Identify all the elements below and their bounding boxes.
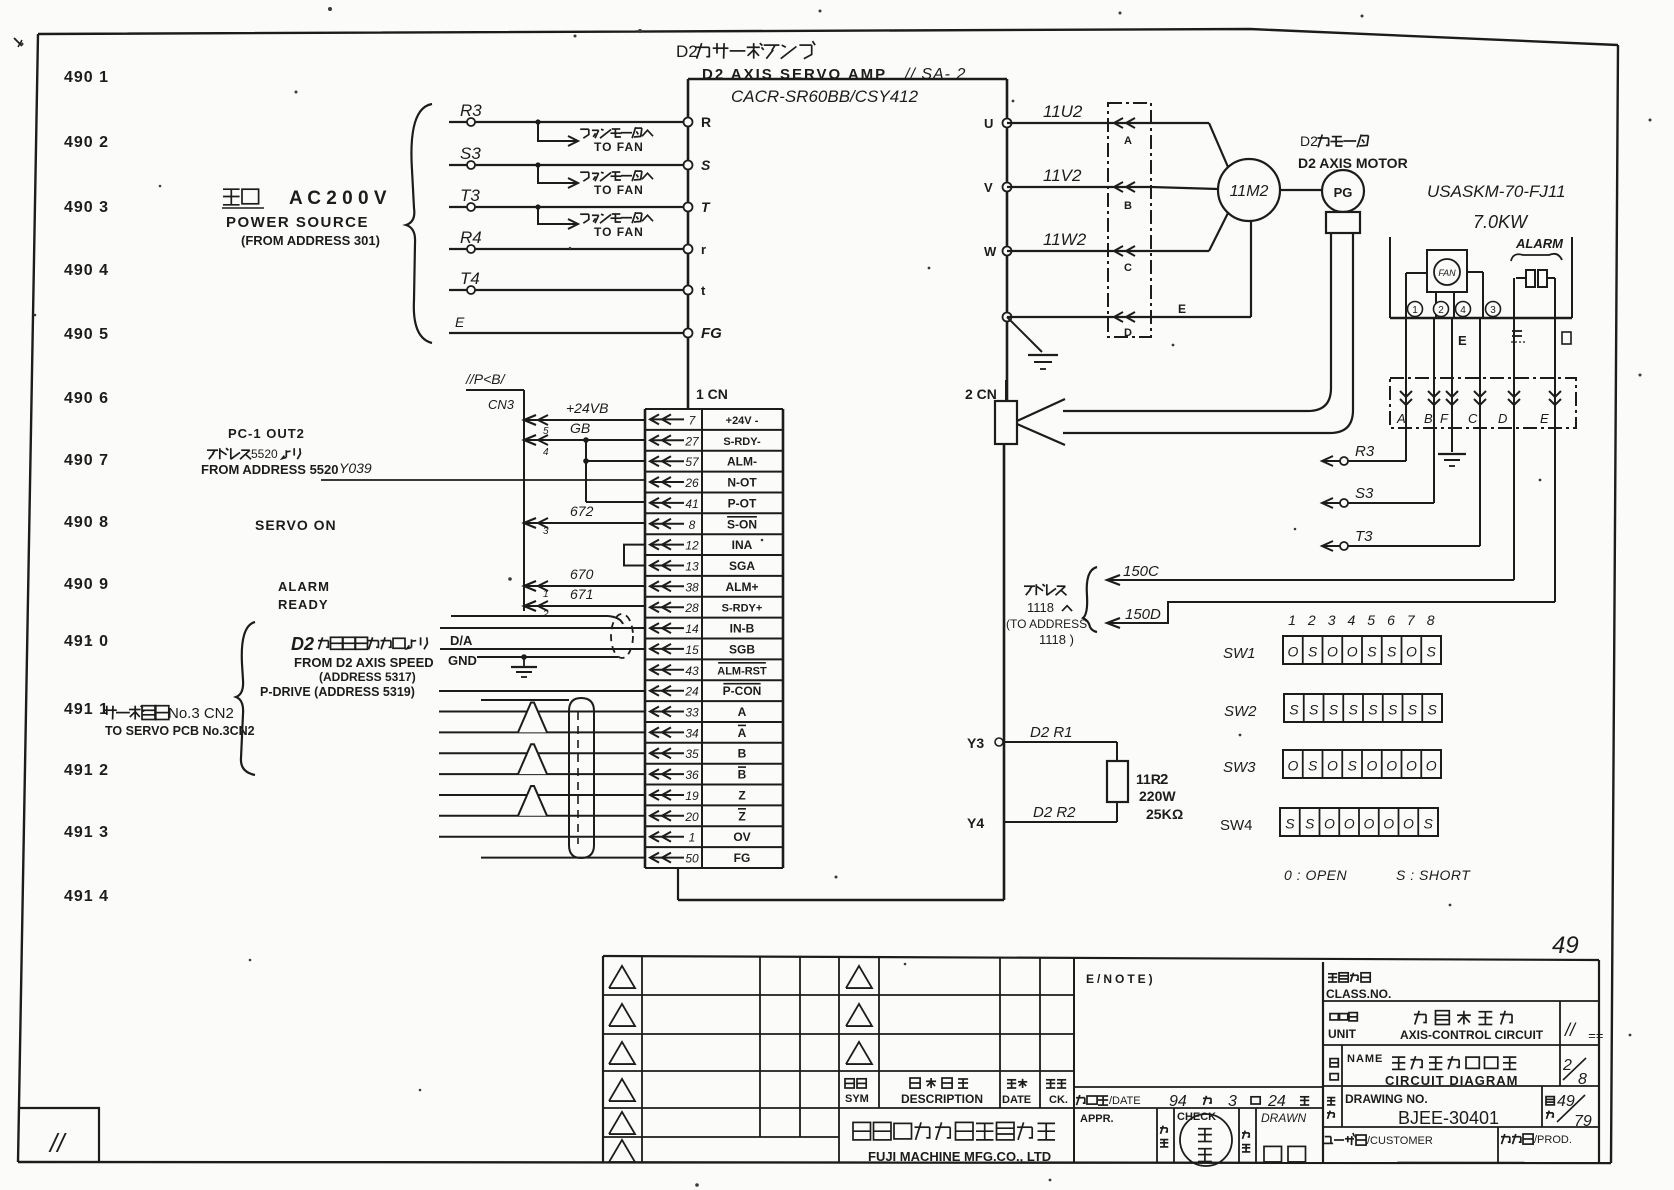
cable shield loop [481, 698, 594, 858]
svg-text:APPR.: APPR. [1080, 1113, 1114, 1125]
net address numbers 4901-4914 (left margin) [64, 69, 109, 905]
resistor 11R2 220W 25Kohm [1107, 742, 1183, 822]
amp output terminals U V W [984, 116, 1012, 322]
wire +24VB from CN3 to 1CN [524, 400, 645, 437]
svg-text:DESCRIPTION: DESCRIPTION [901, 1092, 983, 1106]
svg-text:A: A [1124, 135, 1132, 147]
svg-text:D/A: D/A [450, 633, 473, 648]
wire S3 to machine [1322, 485, 1434, 508]
svg-text:No.3 CN2: No.3 CN2 [168, 705, 234, 722]
svg-text:+24V -: +24V - [726, 415, 759, 427]
svg-text:P-OT: P-OT [728, 496, 757, 510]
svg-text:2: 2 [1307, 612, 1316, 628]
svg-text:O: O [1327, 758, 1338, 774]
svg-text:S: S [1388, 702, 1398, 718]
svg-text:UNIT: UNIT [1328, 1027, 1357, 1041]
PG cable arrow into 2CN [1017, 399, 1065, 445]
revision triangles [609, 966, 872, 1162]
svg-text:490 3: 490 3 [64, 199, 109, 216]
svg-text:4: 4 [1348, 612, 1356, 628]
svg-text:O: O [1366, 758, 1377, 774]
svg-text:T4: T4 [460, 269, 480, 288]
svg-text:O: O [1344, 816, 1355, 832]
svg-text:1: 1 [689, 831, 696, 845]
svg-text:N-OT: N-OT [727, 476, 757, 490]
svg-text:PG: PG [1334, 185, 1353, 200]
connector 1CN of servo amp [645, 386, 783, 868]
svg-text:Y039: Y039 [339, 460, 372, 476]
svg-text:P-CON: P-CON [723, 684, 762, 698]
svg-text:T3: T3 [460, 186, 480, 205]
svg-text:POWER SOURCE: POWER SOURCE [226, 214, 369, 231]
svg-text:SGA: SGA [729, 559, 755, 573]
svg-text:GND: GND [448, 653, 477, 668]
svg-text:D2: D2 [291, 634, 314, 654]
svg-text:==: == [1588, 1028, 1604, 1043]
svg-text:V: V [984, 180, 993, 195]
machine connector A B F C D E [1390, 378, 1576, 428]
legend O:OPEN S:SHORT [1284, 867, 1471, 883]
shield oval at IN-B/SGB (dashed) [611, 614, 633, 658]
svg-text:E: E [1458, 333, 1467, 348]
svg-text:D2: D2 [1300, 133, 1318, 149]
label to address 1118 [1006, 567, 1097, 647]
svg-text:0 : OPEN: 0 : OPEN [1284, 867, 1348, 883]
svg-text:R3: R3 [1355, 443, 1375, 460]
svg-text:OV: OV [733, 830, 750, 844]
svg-text:FAN: FAN [1438, 268, 1456, 278]
encoder PG [1280, 170, 1364, 233]
alarm thermostat contacts [1511, 236, 1564, 287]
svg-text:2: 2 [1438, 305, 1444, 316]
amp input terminals R S T r t FG [684, 114, 723, 342]
wire OV [439, 836, 645, 838]
svg-text:B: B [1124, 200, 1132, 212]
svg-text:S: S [1285, 816, 1295, 832]
svg-text:S3: S3 [1355, 485, 1374, 502]
svg-text:1118: 1118 [1027, 600, 1054, 615]
svg-text:S: S [1427, 702, 1437, 718]
svg-text:220W: 220W [1139, 788, 1176, 804]
svg-text:F: F [1440, 411, 1449, 426]
terminal Y3 with wire D2R1 [967, 724, 1117, 751]
wire GND with ground [448, 653, 618, 677]
svg-text:3: 3 [1228, 1093, 1237, 1110]
wire T4 to servo amp [449, 269, 688, 294]
svg-text:E: E [1178, 302, 1186, 316]
svg-text:1 CN: 1 CN [696, 386, 728, 402]
pin 14 IN-B of 1CN [650, 622, 755, 637]
svg-text:150C: 150C [1123, 563, 1159, 580]
svg-text:O: O [1386, 758, 1397, 774]
brace for power source wires [406, 104, 432, 343]
svg-text:7: 7 [1407, 612, 1416, 628]
svg-text:FROM D2 AXIS SPEED: FROM D2 AXIS SPEED [294, 655, 434, 670]
svg-text:49: 49 [1552, 932, 1579, 959]
pin 24 P-CON (overline) of 1CN [650, 684, 761, 699]
svg-text:3: 3 [1328, 612, 1336, 628]
svg-text:D2 R1: D2 R1 [1030, 724, 1073, 741]
svg-text:27: 27 [684, 434, 700, 448]
pin 27 S-RDY- of 1CN [650, 434, 761, 448]
svg-text:490 8: 490 8 [64, 514, 109, 531]
wire 11V2 motor phase [1007, 166, 1151, 192]
wire E to servo amp [449, 314, 688, 333]
svg-text:FUJI MACHINE MFG.CO., LTD: FUJI MACHINE MFG.CO., LTD [868, 1149, 1051, 1164]
svg-text:7.0KW: 7.0KW [1473, 212, 1529, 232]
svg-text:CK.: CK. [1049, 1094, 1068, 1106]
svg-text:// SA- 2: // SA- 2 [904, 66, 966, 83]
svg-text:4: 4 [543, 447, 549, 458]
svg-text:D2 R2: D2 R2 [1033, 804, 1076, 821]
svg-text:A C 2 0 0 V: A C 2 0 0 V [289, 188, 387, 209]
svg-text:15: 15 [685, 643, 699, 657]
svg-text:E: E [455, 314, 465, 330]
fan unit FAN [1427, 250, 1467, 292]
svg-text:O: O [1324, 816, 1335, 832]
svg-text:D2: D2 [676, 42, 698, 61]
twisted pair B/B- encoder wires [439, 744, 645, 774]
corner tick [14, 38, 22, 46]
svg-text:FG: FG [701, 325, 722, 342]
svg-text:57: 57 [685, 455, 700, 469]
svg-text:24: 24 [684, 685, 699, 699]
svg-text:O: O [1406, 644, 1417, 660]
svg-text:79: 79 [1574, 1113, 1592, 1130]
wire T3 to machine [1322, 528, 1480, 551]
svg-text:490 2: 490 2 [64, 134, 109, 151]
brace to servo PCB [236, 622, 255, 775]
twisted pair A/A- encoder wires [439, 703, 645, 733]
wire D/A speed command to IN-B [440, 616, 645, 648]
svg-text:C: C [1124, 262, 1132, 274]
svg-text:491 2: 491 2 [64, 762, 109, 779]
svg-text://: // [48, 1128, 67, 1158]
svg-text:43: 43 [685, 664, 699, 678]
svg-text:S-RDY-: S-RDY- [723, 436, 761, 448]
svg-text:IN-B: IN-B [730, 622, 755, 636]
svg-text:ALM-: ALM- [727, 455, 757, 469]
svg-text:O: O [1287, 758, 1298, 774]
svg-text:SW3: SW3 [1223, 759, 1256, 776]
wire Y039 from address 5520 to N-OT [321, 460, 645, 480]
svg-text:D2 AXIS MOTOR: D2 AXIS MOTOR [1298, 155, 1408, 171]
svg-text:8: 8 [1427, 612, 1435, 628]
svg-text:B: B [738, 768, 747, 782]
svg-text:5: 5 [1367, 612, 1375, 628]
label CACR-SR60BB/CSY412 (amp model) [731, 87, 919, 106]
svg-text:14: 14 [685, 622, 699, 636]
twisted pair Z/Z- encoder wires [439, 786, 645, 816]
svg-text:491 0: 491 0 [64, 633, 109, 650]
svg-text:D: D [1124, 327, 1132, 339]
wire S3 to servo amp [449, 144, 688, 188]
wire GB from CN3 to 1CN [524, 420, 645, 458]
svg-text:1118 ): 1118 ) [1039, 632, 1074, 647]
pin 13 SGA of 1CN [650, 559, 755, 574]
svg-text:25K: 25K [1146, 806, 1172, 822]
svg-text:DRAWING NO.: DRAWING NO. [1345, 1092, 1428, 1106]
svg-text:S: S [1289, 702, 1299, 718]
wire R3 to servo amp [449, 101, 688, 146]
svg-text:20: 20 [684, 810, 699, 824]
svg-text:TO FAN: TO FAN [594, 183, 644, 197]
svg-text:(ADDRESS 5317): (ADDRESS 5317) [319, 670, 416, 684]
ground at connector F [1438, 428, 1466, 466]
svg-text:3: 3 [1490, 305, 1496, 316]
svg-text:38: 38 [685, 580, 699, 594]
pin 8 S-ON (overline) of 1CN [650, 517, 757, 532]
svg-text:C: C [1468, 411, 1478, 426]
svg-text:CIRCUIT DIAGRAM: CIRCUIT DIAGRAM [1385, 1073, 1518, 1088]
svg-text:FROM ADDRESS 5520: FROM ADDRESS 5520 [201, 462, 339, 477]
svg-text:13: 13 [685, 560, 699, 574]
svg-text:+24VB: +24VB [566, 400, 608, 416]
label D2 axis speed source [260, 634, 434, 699]
svg-text:490 9: 490 9 [64, 576, 109, 593]
pin 15 SGB of 1CN [650, 642, 755, 657]
wire U to motor [1151, 123, 1228, 167]
svg-text:491 4: 491 4 [64, 888, 109, 905]
motor 11M2 (D2 axis motor) [1218, 159, 1280, 221]
svg-text:S: S [1347, 758, 1357, 774]
svg-text:S: S [1408, 702, 1418, 718]
wire T3 to servo amp [449, 186, 688, 229]
switch position numbers 1-8 [1288, 612, 1435, 628]
svg-text:S: S [701, 157, 711, 173]
svg-text:490 1: 490 1 [64, 69, 109, 86]
label ALARM / READY [278, 579, 330, 612]
svg-text:S: S [1329, 702, 1339, 718]
svg-text:O: O [1403, 816, 1414, 832]
label power source AC200V [222, 188, 387, 248]
svg-text:CHECK: CHECK [1177, 1111, 1216, 1123]
pin 7 +24V - of 1CN [650, 413, 759, 427]
svg-text:1: 1 [1412, 305, 1418, 316]
svg-text:D: D [1498, 411, 1507, 426]
svg-text:670: 670 [570, 566, 594, 582]
revision table headers SYM DESCRIPTION DATE CK [845, 1078, 1068, 1106]
svg-text:SGB: SGB [729, 642, 755, 656]
svg-text:R4: R4 [460, 228, 482, 247]
svg-text:36: 36 [685, 768, 699, 782]
svg-text:W: W [984, 244, 997, 259]
svg-text:SYM: SYM [845, 1093, 869, 1105]
wire 672 from CN3 to 1CN [524, 503, 645, 537]
wire E to motor frame [1151, 221, 1251, 317]
pin 38 ALM+ of 1CN [650, 580, 759, 595]
svg-text:O: O [1287, 644, 1298, 660]
svg-text:ALM-RST: ALM-RST [717, 665, 767, 677]
label E and shield marks [1458, 331, 1571, 348]
wire FG with shield [481, 857, 645, 859]
svg-text:USASKM-70-FJ11: USASKM-70-FJ11 [1427, 182, 1566, 201]
svg-text:35: 35 [685, 747, 699, 761]
svg-text:R: R [701, 114, 711, 130]
svg-text:S-ON: S-ON [727, 517, 757, 531]
svg-text:672: 672 [570, 503, 594, 519]
svg-text:A: A [1396, 411, 1406, 426]
svg-text:S : SHORT: S : SHORT [1396, 867, 1471, 883]
svg-text:ALARM: ALARM [1515, 236, 1564, 251]
svg-text:4: 4 [1460, 305, 1466, 316]
svg-text:Y4: Y4 [967, 815, 984, 831]
svg-text:2: 2 [542, 609, 549, 620]
svg-text:S: S [1423, 816, 1433, 832]
pin 36 B (overline) of 1CN [650, 767, 747, 782]
svg-text:NAME: NAME [1347, 1053, 1383, 1065]
connector CN3 (to 11PCB1) [465, 371, 524, 611]
pin 57 ALM- of 1CN [650, 455, 757, 470]
pin 19 Z of 1CN [650, 789, 746, 804]
svg-text:S: S [1367, 644, 1377, 660]
wire R4 to servo amp [449, 228, 688, 253]
label PC-1 OUT2 / from address 5520 [201, 426, 339, 477]
svg-text:(FROM ADDRESS 301): (FROM ADDRESS 301) [241, 233, 380, 248]
svg-text:11U2: 11U2 [1043, 102, 1083, 121]
wire 11W2 motor phase [1007, 230, 1151, 256]
label to-fan annotations [580, 127, 653, 239]
svg-text:/PROD.: /PROD. [1534, 1134, 1572, 1146]
connector pin arrows [1400, 391, 1561, 405]
pin 26 N-OT of 1CN [650, 476, 757, 491]
svg-text:Z: Z [738, 809, 745, 823]
svg-text:2: 2 [1160, 771, 1168, 788]
terminal numbers 1 2 4 3 (circled) [1408, 302, 1501, 317]
svg-text:S-RDY+: S-RDY+ [722, 603, 763, 615]
svg-text:671: 671 [570, 586, 593, 602]
svg-text:D2 AXIS SERVO AMP: D2 AXIS SERVO AMP [702, 66, 887, 83]
pin 34 A (overline) of 1CN [650, 725, 747, 740]
svg-text:Z: Z [738, 789, 745, 803]
svg-text:P-DRIVE (ADDRESS 5319): P-DRIVE (ADDRESS 5319) [260, 685, 415, 699]
svg-text:E: E [1540, 411, 1549, 426]
pin 12 INA of 1CN [650, 538, 753, 553]
svg-text:B: B [1424, 411, 1433, 426]
wire 11U2 motor phase [1007, 102, 1151, 128]
svg-text:2 CN: 2 CN [965, 386, 997, 402]
wire SGB [440, 648, 645, 650]
svg-text:O: O [1426, 758, 1437, 774]
svg-text:19: 19 [685, 789, 699, 803]
svg-text:11M2: 11M2 [1230, 183, 1269, 200]
svg-text:(TO ADDRESS: (TO ADDRESS [1006, 617, 1087, 631]
svg-text:READY: READY [278, 597, 329, 612]
svg-text:S: S [1308, 758, 1318, 774]
svg-text:E/NOTE): E/NOTE) [1086, 972, 1156, 986]
pin 33 A of 1CN [650, 705, 747, 720]
title block class/unit/name/drawing [1323, 960, 1604, 1163]
svg-text:DRAWN: DRAWN [1261, 1111, 1306, 1125]
PG cable wires from encoder [1063, 233, 1353, 433]
switch SW3 settings OSOSOOOO [1223, 750, 1441, 778]
svg-text:TO FAN: TO FAN [594, 225, 644, 239]
terminal Y4 with wire D2R2 [967, 804, 1117, 831]
drawn signature Esaka [1264, 1146, 1306, 1162]
svg-text:S: S [1308, 644, 1318, 660]
svg-text:S: S [1426, 644, 1436, 660]
svg-text:TO FAN: TO FAN [594, 140, 644, 154]
svg-text:GB: GB [570, 420, 590, 436]
wire 150C to address 1118 [1107, 563, 1514, 585]
motor cable connector (A B C D) [1108, 103, 1151, 339]
wires terminal box through connector [1406, 278, 1555, 602]
svg-text:S: S [1348, 702, 1358, 718]
svg-text:O: O [1363, 816, 1374, 832]
ground at amp output [1007, 317, 1058, 369]
svg-text:490 5: 490 5 [64, 326, 109, 343]
wire R3 to machine [1322, 443, 1406, 466]
svg-text:A: A [738, 705, 747, 719]
svg-text:/CUSTOMER: /CUSTOMER [1367, 1135, 1433, 1147]
svg-text:PC-1 OUT2: PC-1 OUT2 [228, 426, 305, 441]
jumper loop between INA and SGA pins [624, 545, 645, 566]
connector 2CN of servo amp [965, 380, 1017, 444]
svg-text:A: A [738, 726, 747, 740]
svg-text:94: 94 [1169, 1093, 1187, 1110]
svg-text:CN3: CN3 [488, 397, 515, 412]
svg-text:490 6: 490 6 [64, 390, 109, 407]
svg-text:O: O [1406, 758, 1417, 774]
svg-text:B: B [738, 747, 747, 761]
svg-text:2: 2 [1562, 1057, 1572, 1074]
svg-text:6: 6 [1387, 612, 1395, 628]
wire V to motor [1151, 187, 1218, 189]
svg-text:1: 1 [543, 589, 549, 600]
svg-text:CLASS.NO.: CLASS.NO. [1326, 987, 1391, 1001]
svg-text:O: O [1347, 644, 1358, 660]
svg-text:24: 24 [1267, 1093, 1286, 1110]
switch SW2 settings SSSSSSSS [1224, 694, 1442, 722]
svg-text:T3: T3 [1355, 528, 1373, 545]
svg-text:12: 12 [685, 539, 699, 553]
svg-text:CACR-SR60BB/CSY412: CACR-SR60BB/CSY412 [731, 87, 919, 106]
svg-text:150D: 150D [1125, 606, 1161, 623]
svg-text:8: 8 [1578, 1071, 1587, 1088]
wire 670 from CN3 to 1CN [524, 566, 645, 600]
svg-text:50: 50 [685, 852, 699, 866]
svg-text:O: O [1383, 816, 1394, 832]
date and approval row [1074, 1087, 1323, 1163]
svg-text:SW2: SW2 [1224, 703, 1257, 720]
svg-text:SERVO ON: SERVO ON [255, 517, 337, 533]
svg-text:Ω: Ω [1172, 806, 1183, 822]
svg-text://P<B/: //P<B/ [465, 371, 507, 387]
motor terminal box rails [1390, 237, 1572, 318]
svg-text:490 4: 490 4 [64, 262, 109, 279]
svg-text:t: t [701, 283, 706, 298]
pin 35 B of 1CN [650, 747, 747, 762]
fan wiring to terminals [1406, 272, 1483, 318]
approval stamp Yamamoto [1180, 1114, 1232, 1166]
servo amp enclosure 11SA-2 [678, 79, 1007, 900]
svg-text:41: 41 [685, 497, 698, 511]
svg-text:R3: R3 [460, 101, 482, 120]
svg-text:O: O [1327, 644, 1338, 660]
label to servo PCB No.3 CN2 [103, 705, 255, 738]
svg-text:INA: INA [732, 538, 753, 552]
svg-text:26: 26 [684, 476, 699, 490]
svg-text:3: 3 [543, 526, 549, 537]
company name Fuji Machine Mfg [853, 1122, 1055, 1164]
pin 50 FG of 1CN [650, 851, 750, 866]
svg-text:FG: FG [734, 851, 751, 865]
svg-text:Y3: Y3 [967, 735, 984, 751]
svg-text:491 3: 491 3 [64, 824, 109, 841]
label D2-axis servo amp title (Japanese) [676, 41, 815, 61]
wire 150D to address 1118 [1107, 602, 1555, 628]
svg-text:AXIS-CONTROL CIRCUIT: AXIS-CONTROL CIRCUIT [1400, 1028, 1544, 1042]
